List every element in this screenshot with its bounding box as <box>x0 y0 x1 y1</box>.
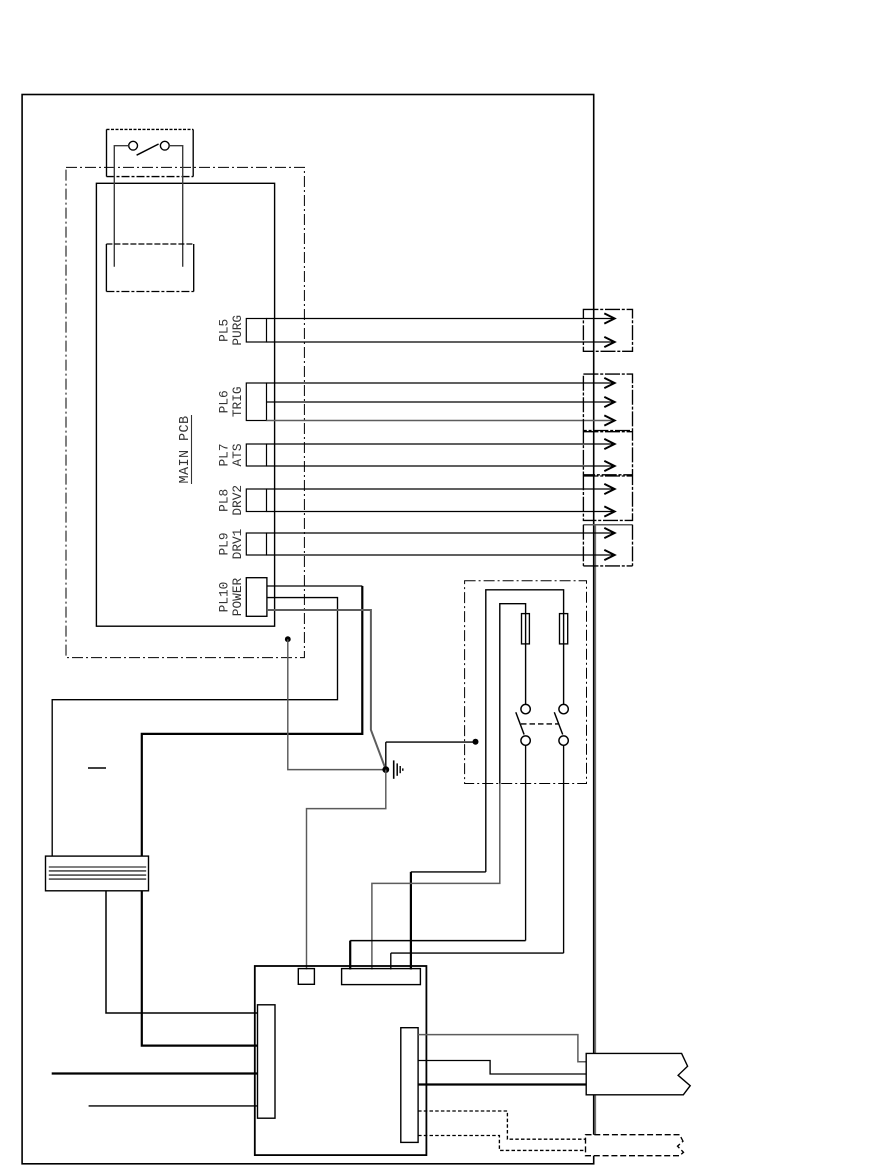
switch S1a contacts <box>521 704 530 713</box>
cable loom 1 (solid, torn end) <box>586 1053 690 1094</box>
wire transformer secondary left to PSU <box>106 891 258 1013</box>
junction dot on fuse box chassis <box>473 739 479 745</box>
wire PSU out dashed 1 to cable2 <box>418 1111 586 1139</box>
MAIN PCB board outline <box>96 183 274 626</box>
gray shield wire vertical net <box>594 525 596 1135</box>
wire PL5 pin2 <box>267 341 613 343</box>
wire PL9 pin2 <box>267 554 613 556</box>
enclosure chassis dash-dot box <box>66 167 304 657</box>
PCB mains connector block under relay <box>106 244 193 292</box>
connector PL7 <box>246 444 266 466</box>
wire PL5 pin1 <box>267 318 613 320</box>
wire mains neutral in (free end) <box>89 1105 258 1107</box>
wire live loop top <box>486 590 564 872</box>
wire PSU out power thick to cable1 <box>418 1083 586 1085</box>
relay contact circle left <box>129 141 138 150</box>
wire PL8 pin2 <box>267 511 613 513</box>
wire PL7 pin2 <box>267 465 613 467</box>
PSU mains input connector <box>342 969 421 985</box>
wire relay left contact down into PCB <box>114 146 128 267</box>
relay switch blade <box>137 144 159 155</box>
wire mains live in (thick free end) <box>52 1072 258 1074</box>
connector PL8 <box>246 489 266 512</box>
switch gang link dashed <box>521 723 559 725</box>
connector PL6 <box>246 383 266 421</box>
fuse F1 <box>522 614 530 644</box>
wire PCB 0V stub to ground (gray) <box>288 639 386 769</box>
svg-text:MAIN PCB: MAIN PCB <box>178 415 193 483</box>
MAIN PCB label <box>178 415 193 484</box>
wire fuse box live down to PSU (thick drop) <box>411 871 486 873</box>
svg-text:PURG: PURG <box>230 315 245 346</box>
wire PL6 pin1 <box>267 382 613 384</box>
arrow terminal box DRV2 out <box>583 476 632 520</box>
PSU right connector <box>401 1028 418 1143</box>
PCB 0V stub junction dot <box>285 636 291 642</box>
wire switch S1b out to PSU <box>563 745 565 953</box>
arrow terminal box TRIG out <box>583 374 632 430</box>
wire PL7 pin1 <box>267 443 613 445</box>
arrow terminal box ATS out <box>583 432 632 475</box>
wire PL6 pin3 (gray) <box>267 420 613 422</box>
wire PSU out dashed 2 to cable2 <box>418 1136 586 1151</box>
PSU left connector <box>258 1005 276 1118</box>
wire PSU out signal to cable1 <box>418 1061 586 1075</box>
ground node dot <box>382 766 389 773</box>
connector PL10 <box>246 578 267 617</box>
relay contact circle right <box>160 141 169 150</box>
wire ground spur into fuse box <box>386 741 476 743</box>
wire PL10 pin2 to transformer <box>52 598 337 857</box>
switch S1b contacts <box>559 704 568 713</box>
fuse-switch assembly dash-dot box <box>465 581 587 784</box>
polarity dash mark <box>88 767 106 769</box>
arrow terminal box DRV1 out (gray top edge) <box>583 525 632 566</box>
connector PL5 <box>246 319 266 343</box>
outer border frame <box>22 95 594 1164</box>
wire PL8 pin1 <box>267 488 613 490</box>
wire ground to PSU earth (gray) <box>307 770 386 970</box>
svg-text:DRV1: DRV1 <box>230 528 245 559</box>
PSU earth terminal square <box>298 969 314 985</box>
fuse F2 <box>560 614 568 644</box>
wire PL6 pin2 <box>267 401 613 403</box>
transformer T1 body <box>46 856 149 891</box>
relay / mains switch box SW1 <box>107 129 194 176</box>
wire transformer secondary right to PSU (thick) <box>142 891 258 1046</box>
wire neutral loop top <box>500 604 526 784</box>
connector PL9 <box>246 533 266 555</box>
svg-text:ATS: ATS <box>230 443 245 466</box>
transformer laminations <box>49 867 146 879</box>
wire PL10 pin1 to transformer (live) <box>267 585 362 587</box>
switch S1b blade <box>554 712 562 734</box>
PSU module box <box>255 966 427 1155</box>
svg-text:TRIG: TRIG <box>230 386 245 417</box>
wire relay right contact down into PCB <box>169 146 183 267</box>
wire switch S1a out to PSU <box>525 745 527 940</box>
arrow terminal box PURG out <box>583 309 632 351</box>
wire PSU out shield (gray) to cable1 <box>418 1035 586 1062</box>
wire fuse box neutral down to PSU (gray) <box>372 784 500 970</box>
wire PL10 pin3 shield (gray) to ground <box>267 610 386 770</box>
ground symbol <box>394 760 403 778</box>
svg-text:POWER: POWER <box>230 577 245 616</box>
svg-text:DRV2: DRV2 <box>230 485 245 516</box>
switch S1a blade <box>516 712 524 734</box>
wire PL9 pin1 <box>267 532 613 534</box>
cable loom 2 (dashed, torn end) <box>586 1135 684 1156</box>
